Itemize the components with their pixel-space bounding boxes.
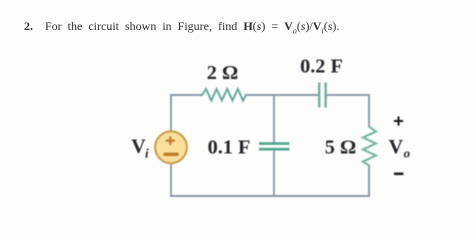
svg-text:0.1 F: 0.1 F <box>208 137 251 159</box>
svg-text:0.2 F: 0.2 F <box>300 56 343 78</box>
svg-text:o: o <box>404 146 411 161</box>
svg-text:2 Ω: 2 Ω <box>207 62 238 84</box>
svg-text:5 Ω: 5 Ω <box>325 137 356 159</box>
svg-text:V: V <box>389 136 404 158</box>
svg-text:i: i <box>145 146 149 161</box>
